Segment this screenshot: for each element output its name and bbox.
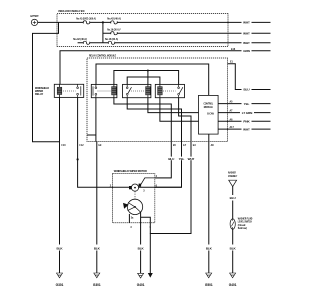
wire relay coil feed GRN (60, 51, 271, 85)
svg-text:No.19 (30 A) *: No.19 (30 A) * (107, 28, 121, 32)
relay K3 (123, 84, 151, 97)
svg-text:RELAY CONTROL MODULE: RELAY CONTROL MODULE (89, 53, 116, 57)
svg-text:ASSEMBLY: ASSEMBLY (228, 175, 238, 178)
wire rail A to control module (96, 64, 209, 95)
svg-text:WINDSHIELD WIPER MOTOR: WINDSHIELD WIPER MOTOR (114, 169, 147, 173)
connector arrow (148, 273, 153, 278)
wire battery branch down-left rail (33, 22, 60, 141)
svg-text:UNDER–HOOD FUSE/RELAY BOX: UNDER–HOOD FUSE/RELAY BOX (58, 9, 85, 13)
svg-text:G301: G301 (56, 283, 64, 287)
svg-text:BLK: BLK (57, 246, 64, 250)
wire row2 output WHT (228, 32, 271, 34)
svg-text:BLK: BLK (94, 246, 101, 250)
wire E9 to ground G301 (96, 142, 98, 274)
park switch cam (123, 199, 143, 214)
wire BLU branch to motor pin 4 (155, 142, 172, 178)
junction rail B coil K3 (147, 70, 149, 72)
wire K3 coil bottom to control module (148, 98, 199, 113)
washer fluid level switch SW1 (230, 219, 235, 229)
svg-text:BLU: BLU (168, 157, 175, 161)
svg-text:No.18 (40 A): No.18 (40 A) (105, 37, 118, 41)
wire rail B (114, 71, 179, 85)
svg-text:PNK: PNK (243, 120, 250, 124)
wire K3 coil top (147, 71, 149, 85)
svg-text:No.42 (40 A): No.42 (40 A) (73, 37, 87, 41)
wire A7 output LT GRN (218, 112, 270, 114)
svg-text:F12: F12 (80, 145, 85, 147)
wire cam pin stub (128, 214, 130, 223)
relay control module box (87, 58, 228, 142)
svg-text:YEL: YEL (244, 102, 250, 106)
svg-text:BLU: BLU (244, 88, 251, 92)
svg-text:WHT: WHT (243, 41, 250, 45)
fuse No.18 (40 A) (108, 41, 114, 44)
ground G301 mid (94, 273, 100, 278)
svg-text:E16: E16 (231, 49, 236, 51)
wire fuse row 3 (78, 42, 228, 44)
wire K1 coil to ground G301 (59, 97, 61, 273)
svg-text:BLK: BLK (206, 246, 213, 250)
wire E1 output BLU (228, 64, 271, 90)
fuse No.42B (40 A) (83, 41, 89, 44)
wire cam to ground G401 (140, 212, 142, 273)
svg-text:YEL: YEL (179, 157, 185, 161)
wire YEL branch to motor pin 2 (155, 142, 182, 188)
relay K1 windshield wiper relay (54, 84, 83, 97)
wire A17 output WHT (218, 128, 270, 130)
svg-text:WHT: WHT (243, 127, 250, 131)
svg-text:WASHER: WASHER (228, 172, 236, 175)
windshield wiper motor box (113, 174, 155, 223)
wire fuse row 2 (103, 32, 228, 34)
fuse No.19 (30 A) (111, 32, 117, 35)
svg-text:F10: F10 (62, 145, 67, 147)
svg-text:G501: G501 (205, 283, 213, 287)
ground G401 washer (230, 273, 236, 278)
wire WHT branch to park switch (141, 142, 191, 234)
splice S1 on F12 wire (77, 158, 79, 160)
wire row1 output WHT (228, 21, 271, 23)
washer page connector triangle (229, 180, 237, 186)
svg-text:BLK: BLK (138, 246, 145, 250)
ground G401 motor (138, 273, 144, 278)
wire module left edge stub (87, 134, 96, 136)
svg-text:GRN: GRN (243, 49, 249, 53)
wire washer down (232, 186, 234, 273)
svg-text:No.41 (BAT) (100 A): No.41 (BAT) (100 A) (76, 17, 96, 21)
fuse No.41 (BAT) (100 A) (83, 21, 89, 24)
wire control module bottom to ground (208, 134, 210, 273)
motor M1 (129, 184, 141, 192)
svg-text:BLU: BLU (230, 196, 237, 200)
wire A5 output YEL (218, 103, 270, 105)
wire rail C (127, 77, 160, 84)
fuse No.42 (40 A) (111, 21, 117, 24)
wire K4 switch bottom to pin (179, 98, 191, 142)
under-hood fuse/relay box (57, 14, 228, 47)
svg-text:WHT: WHT (188, 157, 195, 161)
wire K3 switch bottom to pin (127, 98, 181, 142)
relay K4 (155, 84, 184, 97)
wire row3 output WHT (228, 42, 271, 44)
ground G301 left (57, 273, 63, 278)
wire color label BLU motor (167, 157, 176, 161)
wire K2 switch bottom to pin E9 (95, 98, 97, 142)
svg-text:CONTROL: CONTROL (204, 101, 214, 105)
wire K2 coil bottom to pin (114, 98, 171, 142)
svg-text:fluid low): fluid low) (238, 226, 247, 230)
svg-text:BLK: BLK (230, 246, 237, 250)
wire fuse row 1 (57, 21, 228, 23)
svg-text:BATTERY: BATTERY (30, 14, 38, 18)
svg-text:G401: G401 (229, 283, 237, 287)
svg-text:WHT: WHT (243, 31, 250, 35)
wire vertical feed rows 2 and 3 (102, 22, 104, 42)
ground G501 (206, 273, 212, 278)
svg-text:G301: G301 (93, 283, 101, 287)
wire battery to fuse row 1 (38, 21, 57, 23)
svg-text:MODULE: MODULE (204, 105, 213, 109)
relay K2 (91, 84, 117, 97)
svg-text:No.42 (40 A): No.42 (40 A) (107, 17, 121, 21)
svg-text:RELAY: RELAY (35, 92, 44, 96)
battery B1 (31, 19, 37, 25)
svg-text:LT GRN: LT GRN (242, 111, 253, 115)
wire K1 switch to motor (78, 97, 129, 187)
svg-text:G401: G401 (137, 283, 145, 287)
wire motor top to BLU pin (141, 178, 172, 185)
wire A6 output PNK (218, 120, 270, 122)
junction row1 (102, 21, 104, 23)
wire K4 coil bottom to control module (160, 98, 199, 122)
control module U1 (199, 95, 219, 134)
wire park switch connector down (149, 234, 151, 274)
wire motor to YEL pin (139, 186, 182, 188)
svg-text:WHT: WHT (243, 21, 250, 25)
svg-text:B-CAN: B-CAN (207, 112, 214, 116)
mechanical link motor to cam (134, 191, 136, 199)
